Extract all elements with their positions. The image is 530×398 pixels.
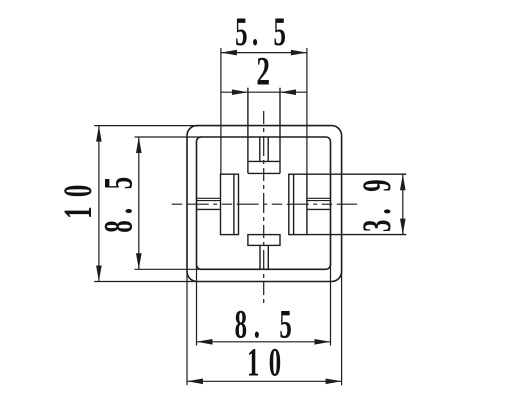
top bar lower edge [248, 172, 280, 174]
dim 10 left extension line top [94, 125, 198, 127]
dim 5.5 dimension line [221, 52, 307, 54]
arrowhead dim 3.9 bottom [400, 219, 406, 235]
top slot left wall / extension line for dim 2 [247, 88, 249, 174]
top narrow slot right line [267, 137, 269, 161]
right tab inner line [293, 174, 295, 234]
top slot right wall / extension line for dim 2 [279, 88, 281, 174]
inner body outline (8.5 x 8.5 rounded square) [197, 137, 331, 269]
arrowhead dim 3.9 top [400, 174, 406, 190]
dim 10 bottom extension line right [341, 271, 343, 386]
right tab top edge extended (extension line for dim 3.9) [307, 173, 406, 175]
top bar upper edge [248, 160, 280, 162]
bottom bar rectangle [248, 235, 280, 246]
right bar top edge [307, 197, 331, 199]
left tab rectangle [221, 174, 239, 234]
arrowhead dim 10 left top [96, 126, 102, 142]
arrowhead dim 2 left (outside) [232, 89, 248, 95]
svg-text:8. 5: 8. 5 [96, 177, 140, 233]
dim 8.5 bottom dimension line [197, 341, 331, 343]
left bar bottom edge [197, 208, 221, 210]
svg-text:3. 9: 3. 9 [355, 179, 399, 232]
right tab rectangle [289, 174, 307, 234]
vertical center line [263, 111, 265, 305]
arrowhead dim 8.5 bottom right [315, 339, 331, 345]
dim 8.5 left extension line bottom [135, 268, 203, 270]
arrowhead dim 5.5 left [221, 50, 237, 56]
top narrow slot left line [259, 137, 261, 161]
svg-text:5. 5: 5. 5 [235, 10, 286, 54]
dim 8.5 bottom extension line left [196, 264, 198, 346]
dim 10 left dimension line [98, 126, 100, 282]
dim 5.5 extension line left [220, 48, 222, 174]
dim 2 dimension line [221, 91, 307, 93]
bottom narrow slot left line [259, 245, 261, 269]
bottom narrow slot right line [267, 245, 269, 269]
right bar second top edge [307, 200, 331, 202]
dim 10 bottom dimension line [187, 380, 342, 382]
right tab bottom edge extended (extension line for dim 3.9) [307, 234, 406, 236]
left bar top edge [197, 197, 221, 199]
arrowhead dim 8.5 left top [136, 137, 142, 153]
dim 8.5 bottom extension line right [330, 264, 332, 346]
arrowhead dim 10 bottom right [326, 379, 342, 385]
dim 8.5 left dimension line [138, 137, 140, 269]
arrowhead dim 10 left bottom [96, 266, 102, 282]
dim 8.5 left extension line top [135, 136, 203, 138]
dim 10 bottom extension line left [186, 271, 188, 386]
svg-text:10: 10 [56, 185, 100, 219]
dim 5.5 extension line right [306, 48, 308, 174]
outer body outline (10 x 10 rounded square) [187, 126, 342, 282]
dim 10 left extension line bottom [94, 281, 198, 283]
arrowhead dim 10 bottom left [187, 379, 203, 385]
right bar bottom edge [307, 208, 331, 210]
left tab inner line [233, 174, 235, 234]
arrowhead dim 5.5 right [291, 50, 307, 56]
svg-text:10: 10 [247, 341, 281, 385]
arrowhead dim 8.5 left bottom [136, 253, 142, 269]
svg-text:2: 2 [256, 51, 270, 94]
horizontal center line [172, 203, 358, 205]
arrowhead dim 8.5 bottom left [197, 339, 213, 345]
arrowhead dim 2 right (outside) [280, 89, 296, 95]
svg-text:8. 5: 8. 5 [235, 303, 292, 347]
dim 3.9 dimension line [402, 174, 404, 234]
left bar second top edge [197, 200, 221, 202]
